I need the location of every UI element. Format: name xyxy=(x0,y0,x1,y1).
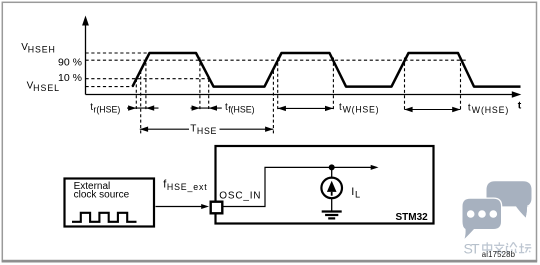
dashed vline rise3 90% xyxy=(404,58,406,111)
label T_HSE xyxy=(190,124,217,137)
watermark glyph lun xyxy=(507,242,517,253)
t_W(HSE) pulse width arrow 1 xyxy=(278,106,334,111)
t_W(HSE) pulse width arrow 2 xyxy=(404,107,460,112)
svg-text:10 %: 10 % xyxy=(58,72,82,84)
OSC_IN pin square xyxy=(211,202,223,214)
watermark glyph tan xyxy=(519,243,531,252)
label V_HSEH xyxy=(21,42,56,55)
ground xyxy=(322,212,342,219)
T_HSE period arrow xyxy=(140,127,274,132)
label t_W(HSE) 1 xyxy=(339,102,379,115)
wire junction to current source xyxy=(331,167,333,178)
svg-text:W(HSE): W(HSE) xyxy=(343,105,380,115)
label V_HSEL xyxy=(27,80,60,93)
svg-text:t: t xyxy=(468,102,471,113)
svg-text:HSE: HSE xyxy=(197,126,217,136)
svg-text:f(HSE): f(HSE) xyxy=(228,105,254,115)
svg-text:HSEH: HSEH xyxy=(28,45,56,55)
wire current source to ground xyxy=(331,198,333,211)
svg-text:HSEL: HSEL xyxy=(33,83,60,93)
current source I_L circle xyxy=(321,178,342,199)
external clock source box xyxy=(65,179,155,227)
wire from pin to current source rail xyxy=(223,167,371,206)
svg-text:ST: ST xyxy=(464,240,480,256)
svg-text:STM32: STM32 xyxy=(396,212,429,223)
t axis (time) xyxy=(86,91,522,97)
label I_L xyxy=(351,186,360,199)
dashed level 90% xyxy=(86,59,467,61)
svg-text:clock source: clock source xyxy=(74,189,130,200)
svg-text:OSC_IN: OSC_IN xyxy=(219,190,261,201)
svg-text:ai17528b: ai17528b xyxy=(482,250,516,259)
svg-text:L: L xyxy=(355,190,360,200)
t_r(HSE) measure arrows xyxy=(127,105,159,110)
svg-text:W(HSE): W(HSE) xyxy=(472,105,509,115)
label t_W(HSE) 2 xyxy=(468,102,509,115)
watermark glyph zhong xyxy=(483,242,492,253)
t_f(HSE) measure arrows xyxy=(191,105,222,110)
watermark glyph wen xyxy=(494,242,504,253)
dashed vline rise2 mid (T_HSE end) xyxy=(272,71,274,135)
svg-text:90 %: 90 % xyxy=(58,56,82,68)
dashed level 10% xyxy=(86,78,210,80)
junction node xyxy=(329,164,335,170)
watermark back chat bubble xyxy=(487,181,532,217)
current source arrow xyxy=(327,181,337,196)
dashed vline fall1 90% xyxy=(199,58,201,111)
dashed vline rise1 10% xyxy=(135,79,137,110)
watermark front chat bubble xyxy=(463,199,502,239)
dashed vline rise1 mid (T_HSE start) xyxy=(140,71,142,135)
label External clock source xyxy=(74,181,130,201)
dashed vline rise1 90% xyxy=(145,58,147,111)
svg-text:HSE_ext: HSE_ext xyxy=(167,182,208,192)
dashed vline fall2 90% xyxy=(332,58,334,111)
svg-text:r(HSE): r(HSE) xyxy=(93,105,120,115)
dashed vline rise2 90% xyxy=(277,58,279,111)
HSE waveform xyxy=(133,53,521,87)
STM32 box xyxy=(216,146,434,224)
V axis (amplitude) xyxy=(82,16,89,95)
rail arrowhead xyxy=(371,165,379,170)
svg-text:T: T xyxy=(190,124,196,135)
dashed vline fall1 10% xyxy=(208,79,210,110)
label f_HSE_ext xyxy=(163,178,207,192)
label t_r(HSE) xyxy=(90,102,120,115)
dashed level V_HSEL xyxy=(86,86,134,88)
label t_f(HSE) xyxy=(225,102,255,115)
square wave symbol xyxy=(72,213,137,222)
dashed vline fall3 90% xyxy=(460,58,462,111)
svg-text:I: I xyxy=(351,186,354,198)
wire arrow into OSC_IN xyxy=(156,204,210,209)
svg-text:t: t xyxy=(518,99,522,111)
dashed level V_HSEH xyxy=(86,52,151,54)
svg-text:t: t xyxy=(339,102,342,113)
